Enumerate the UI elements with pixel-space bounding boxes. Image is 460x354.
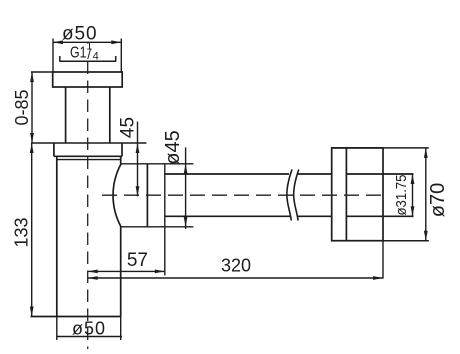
- dim 0-85: top extension: [31, 71, 53, 73]
- arrow ø50 top left: [53, 40, 63, 44]
- svg-text:320: 320: [221, 256, 251, 276]
- pipe break curve left: [287, 170, 292, 221]
- body bottom: [31, 316, 122, 318]
- dim 320: right extension: [382, 241, 384, 279]
- arrow 0-85 top: [30, 72, 34, 82]
- wall flange outline: [332, 148, 383, 241]
- svg-text:ø31.75: ø31.75: [393, 175, 410, 216]
- svg-text:133: 133: [12, 217, 32, 247]
- vertical centerline of body: [87, 62, 89, 350]
- dim ø50 bottom: dimension line: [57, 336, 122, 338]
- arrow ø31.75 top: [411, 174, 415, 184]
- svg-text:ø50: ø50: [72, 319, 106, 339]
- arrow 45 top: [136, 143, 140, 153]
- svg-text:57: 57: [127, 250, 148, 271]
- svg-text:45: 45: [118, 117, 139, 138]
- arrow ø31.75 bottom: [411, 206, 415, 216]
- arrow 57 left: [88, 270, 98, 274]
- dim 45: dimension line: [137, 122, 139, 197]
- nut right wall with extension: [164, 164, 166, 276]
- body right wall lower: [120, 227, 122, 317]
- dim ø50 bottom: right extension: [120, 317, 122, 341]
- top flange: [53, 72, 123, 87]
- arrow 320 left: [88, 276, 98, 280]
- flange top line with ø70 extension: [332, 147, 429, 149]
- body top line with extensions: [31, 142, 147, 144]
- nut top line: [121, 163, 193, 165]
- arrow 320 right: [373, 276, 383, 280]
- svg-text:/: /: [87, 47, 91, 62]
- svg-text:ø45: ø45: [162, 130, 184, 164]
- wall flange inner ring line: [345, 148, 347, 241]
- dim ø45: dimension line: [185, 147, 187, 229]
- arrow 57 right: [155, 270, 165, 274]
- nut bottom line: [121, 226, 193, 228]
- dim 57: dimension line: [88, 270, 165, 272]
- dim ø50 bottom: left extension: [56, 317, 58, 341]
- svg-text:ø70: ø70: [427, 183, 449, 217]
- dim 133: dimension line: [31, 143, 33, 317]
- dim ø70: dimension line: [425, 148, 427, 241]
- G1 1/4 thread line: [59, 56, 116, 61]
- arrow ø45 bottom: [184, 217, 188, 227]
- body left wall: [56, 156, 58, 316]
- neck tube left wall: [65, 87, 67, 143]
- pipe bottom wall: [165, 215, 414, 217]
- arrow 0-85 bottom: [30, 133, 34, 143]
- body right wall upper: [120, 156, 122, 164]
- dim ø50 top: left extension: [52, 39, 54, 72]
- arrow 133 bottom: [30, 307, 34, 317]
- arrow ø70 top: [424, 148, 428, 158]
- svg-text:0-85: 0-85: [12, 89, 32, 125]
- flange bottom line with ø70 extension: [332, 240, 429, 242]
- neck tube right wall: [109, 87, 111, 143]
- body pipe-joint arc: [113, 164, 121, 227]
- horizontal centerline of pipe: [102, 194, 386, 196]
- arrow 133 top: [30, 143, 34, 153]
- arrow ø50 top right: [111, 40, 121, 44]
- arrow ø45 top: [184, 164, 188, 174]
- dim ø50 top: right extension: [120, 39, 122, 72]
- arrow ø70 bottom: [424, 231, 428, 241]
- body cap ring: [54, 143, 122, 156]
- pipe top wall: [165, 173, 414, 175]
- dim ø31.75: dimension line: [412, 174, 414, 216]
- svg-text:4: 4: [93, 50, 99, 62]
- dim 0-85: dimension line: [31, 72, 33, 143]
- svg-text:G1: G1: [70, 45, 87, 62]
- dim ø50 top: dimension line: [53, 41, 121, 43]
- pipe break curve right: [294, 170, 299, 221]
- nut left wall: [146, 164, 148, 227]
- dim 320: dimension line: [88, 277, 383, 279]
- arrow 45 bottom: [136, 186, 140, 196]
- body shoulder line: [57, 159, 121, 161]
